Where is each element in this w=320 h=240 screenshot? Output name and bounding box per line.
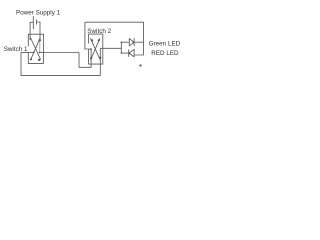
wire green LED cathode to right rail bbox=[134, 41, 143, 43]
wire staircase S1-right to S2 bottom-left bbox=[79, 53, 91, 68]
switch S2 pin dot bottom-right bbox=[99, 57, 101, 59]
switch S1 pin dot top-right bbox=[39, 39, 41, 41]
diode D1 green LED triangle bbox=[129, 39, 134, 46]
node red LED apex bbox=[128, 52, 130, 54]
wire battery right lead bbox=[37, 22, 40, 40]
switch S2 inner contact right bbox=[99, 48, 101, 57]
switch S2 inner contact left bbox=[90, 49, 92, 58]
switch S2 pin dot top-left bbox=[91, 39, 93, 41]
switch S2 pin dot top-right bbox=[98, 39, 100, 41]
svg-text:RED LED: RED LED bbox=[151, 50, 179, 57]
battery B1 short plate bbox=[36, 20, 38, 25]
switch S2 cross arm B bbox=[91, 38, 100, 60]
svg-text:Green LED: Green LED bbox=[149, 40, 181, 47]
battery B1 long plate bbox=[32, 16, 34, 29]
diode D2 red LED triangle bbox=[129, 49, 134, 56]
switch S1 cross arm A bbox=[31, 38, 41, 60]
diode D2 red LED cathode bar bbox=[128, 49, 130, 56]
switch S2 pin dot bottom-left bbox=[90, 57, 92, 59]
wire S2 left terminal from top loop bbox=[85, 22, 91, 49]
node S1 left contact bbox=[33, 52, 35, 54]
node S1 right contact bbox=[39, 52, 41, 54]
switch S2 box bbox=[89, 34, 103, 64]
switch S1 cross arm B bbox=[31, 38, 41, 60]
switch S1 pin dot bottom-right bbox=[38, 59, 40, 61]
wire red LED cathode bbox=[121, 52, 128, 54]
wire LED left rail bbox=[120, 42, 122, 53]
node left rail bottom bbox=[121, 52, 123, 54]
switch S1 inner contact right bbox=[39, 40, 41, 52]
stray dot bbox=[139, 64, 141, 66]
switch S2 cross arm A bbox=[90, 38, 100, 60]
switch S1 pin dot top-left bbox=[30, 38, 32, 40]
svg-text:Power Supply 1: Power Supply 1 bbox=[16, 10, 61, 17]
node S2 left contact bbox=[90, 48, 92, 50]
switch S1 pin dot bottom-left bbox=[30, 58, 32, 60]
wire loop S1-left down and along bottom to S2 bottom-right bbox=[21, 52, 100, 75]
wire S2 right terminal to LED anode rail bbox=[100, 47, 121, 49]
wire S1 left terminal bbox=[21, 51, 34, 53]
node green LED apex bbox=[133, 41, 135, 43]
wire S1 right terminal bbox=[39, 52, 79, 54]
switch S1 box bbox=[28, 34, 43, 63]
svg-text:Switch 1: Switch 1 bbox=[4, 46, 28, 53]
wire green LED anode bbox=[121, 41, 129, 43]
node left rail top bbox=[121, 41, 123, 43]
wire battery left lead bbox=[30, 22, 33, 40]
diode D1 green LED cathode bar bbox=[133, 38, 135, 46]
wire top loop to LED cathode rail bbox=[85, 22, 144, 55]
